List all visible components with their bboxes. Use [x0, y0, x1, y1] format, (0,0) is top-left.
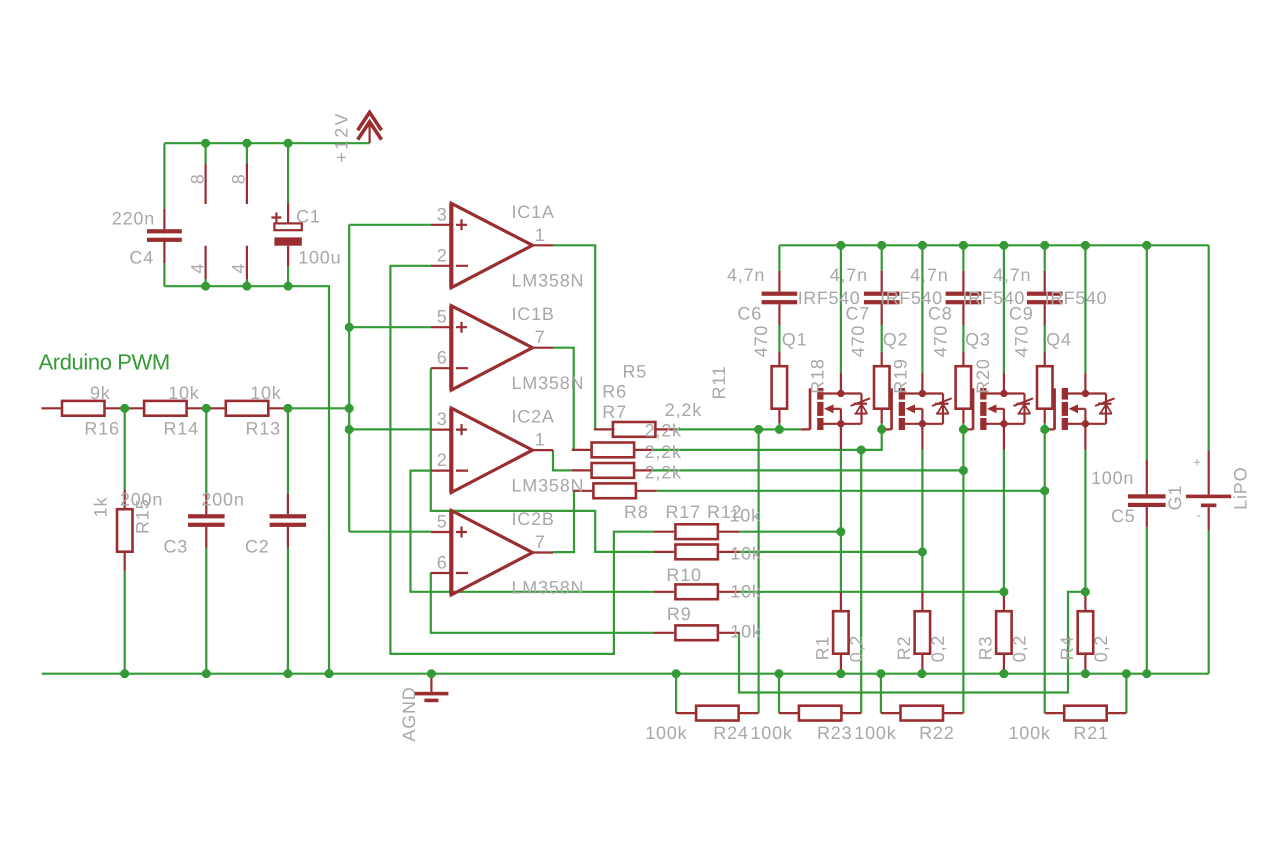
- svg-text:R3: R3: [975, 636, 995, 661]
- svg-text:10k: 10k: [168, 383, 200, 403]
- svg-text:R20: R20: [973, 358, 993, 393]
- svg-text:2,2k: 2,2k: [645, 421, 682, 441]
- svg-text:7: 7: [535, 532, 546, 552]
- svg-text:470: 470: [751, 325, 771, 357]
- svg-text:2,2k: 2,2k: [645, 442, 682, 462]
- svg-text:200n: 200n: [201, 490, 244, 510]
- svg-text:6: 6: [437, 348, 448, 368]
- svg-text:Q4: Q4: [1046, 329, 1072, 349]
- svg-text:IC1B: IC1B: [512, 304, 555, 324]
- svg-text:0,2: 0,2: [928, 635, 948, 662]
- svg-text:0,2: 0,2: [1091, 635, 1111, 662]
- svg-text:R17: R17: [666, 502, 701, 522]
- svg-text:C2: C2: [245, 537, 270, 557]
- svg-text:R16: R16: [84, 419, 119, 439]
- svg-text:8: 8: [187, 173, 207, 184]
- svg-text:100k: 100k: [751, 723, 793, 743]
- svg-text:C5: C5: [1111, 506, 1136, 526]
- svg-text:220n: 220n: [112, 209, 155, 229]
- svg-text:0,2: 0,2: [847, 635, 867, 662]
- svg-text:C8: C8: [928, 304, 953, 324]
- svg-text:-: -: [1196, 508, 1201, 523]
- svg-text:LiPO: LiPO: [1230, 467, 1250, 510]
- svg-text:5: 5: [437, 512, 448, 532]
- svg-text:R2: R2: [894, 636, 914, 661]
- svg-text:Q2: Q2: [883, 329, 909, 349]
- svg-text:R4: R4: [1057, 636, 1077, 661]
- svg-text:R24: R24: [713, 723, 748, 743]
- svg-text:470: 470: [848, 325, 868, 357]
- svg-text:R18: R18: [807, 358, 827, 393]
- svg-text:4: 4: [187, 263, 207, 274]
- svg-text:10k: 10k: [730, 622, 762, 642]
- svg-text:10k: 10k: [730, 544, 762, 564]
- svg-text:1k: 1k: [91, 497, 111, 518]
- svg-text:470: 470: [931, 325, 951, 357]
- svg-text:G1: G1: [1165, 485, 1185, 511]
- svg-text:2: 2: [437, 245, 448, 265]
- svg-text:R10: R10: [666, 565, 701, 585]
- svg-text:+12V: +12V: [331, 111, 351, 162]
- svg-text:C3: C3: [164, 537, 189, 557]
- svg-text:R21: R21: [1073, 723, 1108, 743]
- svg-text:4: 4: [228, 263, 248, 274]
- svg-text:R23: R23: [817, 723, 852, 743]
- svg-text:R8: R8: [624, 502, 649, 522]
- svg-text:R13: R13: [246, 419, 281, 439]
- svg-text:C1: C1: [296, 206, 321, 226]
- svg-text:10k: 10k: [730, 582, 762, 602]
- svg-text:0,2: 0,2: [1010, 635, 1030, 662]
- svg-text:6: 6: [437, 553, 448, 573]
- svg-text:R7: R7: [602, 402, 627, 422]
- svg-text:2,2k: 2,2k: [645, 463, 682, 483]
- svg-text:R5: R5: [623, 362, 648, 382]
- svg-text:IC2A: IC2A: [512, 407, 555, 427]
- svg-text:R9: R9: [667, 604, 692, 624]
- svg-text:470: 470: [1012, 325, 1032, 357]
- svg-text:3: 3: [437, 409, 448, 429]
- svg-text:2,2k: 2,2k: [665, 400, 702, 420]
- svg-text:R11: R11: [709, 365, 729, 399]
- svg-text:4,7n: 4,7n: [910, 265, 948, 285]
- svg-text:100u: 100u: [298, 248, 341, 268]
- svg-text:IC1A: IC1A: [512, 202, 555, 222]
- svg-text:Q1: Q1: [782, 329, 808, 349]
- svg-text:LM358N: LM358N: [512, 271, 585, 291]
- svg-text:1: 1: [535, 430, 546, 450]
- svg-text:5: 5: [437, 307, 448, 327]
- svg-text:100k: 100k: [1009, 723, 1051, 743]
- svg-text:C6: C6: [737, 304, 762, 324]
- svg-text:C4: C4: [129, 248, 154, 268]
- svg-text:+: +: [1193, 455, 1201, 470]
- svg-text:C9: C9: [1009, 304, 1034, 324]
- svg-text:4,7n: 4,7n: [830, 265, 868, 285]
- svg-text:8: 8: [228, 173, 248, 184]
- svg-text:100n: 100n: [1091, 468, 1134, 488]
- svg-text:10k: 10k: [250, 383, 282, 403]
- svg-text:LM358N: LM358N: [512, 578, 585, 598]
- svg-text:Arduino PWM: Arduino PWM: [39, 350, 170, 375]
- svg-text:R22: R22: [919, 723, 954, 743]
- svg-text:200n: 200n: [120, 490, 163, 510]
- svg-text:10k: 10k: [730, 506, 762, 526]
- svg-text:LM358N: LM358N: [512, 373, 585, 393]
- svg-text:2: 2: [437, 450, 448, 470]
- svg-text:7: 7: [535, 327, 546, 347]
- svg-text:R14: R14: [164, 419, 199, 439]
- svg-text:C7: C7: [846, 304, 871, 324]
- svg-text:3: 3: [437, 204, 448, 224]
- svg-text:IRF540: IRF540: [1045, 288, 1108, 308]
- svg-text:Q3: Q3: [965, 329, 991, 349]
- svg-text:LM358N: LM358N: [512, 475, 585, 495]
- svg-text:100k: 100k: [854, 723, 896, 743]
- svg-text:R6: R6: [602, 382, 627, 402]
- svg-text:R1: R1: [812, 636, 832, 661]
- svg-text:4,7n: 4,7n: [993, 265, 1031, 285]
- svg-text:AGND: AGND: [399, 686, 419, 741]
- svg-text:9k: 9k: [90, 383, 111, 403]
- svg-text:1: 1: [535, 225, 546, 245]
- svg-text:IC2B: IC2B: [512, 509, 555, 529]
- svg-text:4,7n: 4,7n: [727, 265, 765, 285]
- svg-text:100k: 100k: [645, 723, 687, 743]
- svg-text:R19: R19: [891, 358, 911, 393]
